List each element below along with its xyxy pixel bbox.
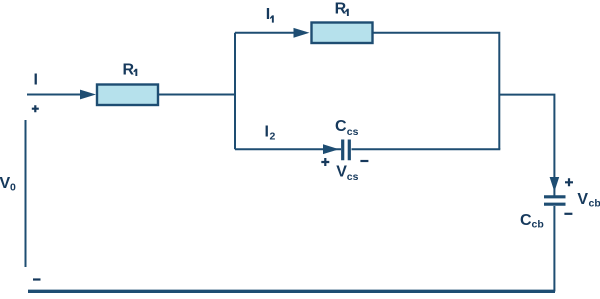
- svg-text:I: I: [266, 6, 270, 23]
- svg-text:V: V: [577, 191, 588, 208]
- svg-text:I: I: [34, 72, 38, 89]
- svg-text:cb: cb: [589, 198, 600, 210]
- svg-text:C: C: [335, 118, 347, 135]
- svg-text:R: R: [335, 0, 347, 17]
- svg-text:R: R: [123, 61, 135, 78]
- svg-text:cs: cs: [347, 126, 359, 138]
- svg-text:C: C: [520, 212, 532, 229]
- svg-text:V: V: [0, 175, 11, 192]
- svg-text:2: 2: [270, 131, 276, 143]
- svg-text:I: I: [265, 124, 269, 141]
- svg-text:0: 0: [10, 182, 16, 194]
- svg-text:cb: cb: [532, 219, 544, 231]
- svg-text:cs: cs: [347, 171, 359, 183]
- svg-text:V: V: [336, 164, 347, 181]
